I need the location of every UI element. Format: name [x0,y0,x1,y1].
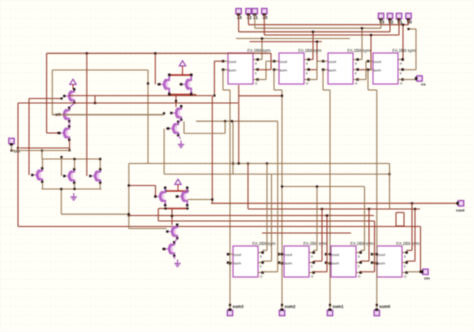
wire [271,174,273,261]
wire [183,122,185,134]
junction [41,149,43,151]
wire [229,90,231,308]
wire [262,232,351,234]
wire [358,69,372,71]
wire [316,187,318,251]
wire [396,212,404,214]
svg-text:ci: ci [260,274,263,278]
wire [326,253,330,255]
junction [229,262,231,264]
pmos transistor M2 [58,107,70,123]
svg-text:a: a [260,254,262,258]
wire [361,260,370,262]
wire [309,69,318,71]
wire [258,69,272,71]
wire [12,150,71,152]
svg-text:cout: cout [332,252,340,257]
wire [365,61,367,79]
svg-text:b: b [255,71,257,75]
wire [266,60,274,62]
wire [211,96,213,204]
wire [69,95,212,97]
pmos transistor M8 [180,74,192,96]
junction [60,156,62,158]
output pin cout [456,201,465,213]
wire [28,99,30,176]
wire [129,185,156,187]
nmos transistor M4 [31,167,43,183]
wire [129,215,374,217]
wire [366,60,368,62]
svg-text:b: b [306,71,308,75]
svg-text:FA 2Bit sym: FA 2Bit sym [303,241,327,246]
junction [168,93,170,95]
wire [372,253,377,255]
wire [403,213,405,227]
svg-text:ci: ci [255,81,258,85]
wire net b1 [248,14,250,25]
junction [166,127,168,129]
svg-text:ci: ci [306,81,309,85]
junction [402,24,404,26]
wire [370,35,372,70]
junction [60,188,62,190]
wire [376,90,378,308]
wire [166,190,188,192]
wire [321,209,323,261]
wire [249,24,409,26]
wire [239,95,282,97]
junction [376,304,378,306]
svg-text:a: a [358,254,360,258]
output pin sum1 [327,304,344,316]
wire [250,41,322,43]
wire [47,132,59,134]
full adder U5 [227,241,276,278]
wire [309,79,318,81]
wire [42,158,102,160]
junction [190,93,192,95]
full adder U8 [371,241,420,278]
svg-text:sum: sum [285,260,293,265]
wire [265,61,267,79]
wire net cout [211,202,458,204]
junction [261,37,263,39]
wire [396,225,404,227]
wire [270,53,272,69]
svg-text:cout: cout [378,252,386,257]
wire [11,146,13,151]
wire [164,173,389,175]
junction [68,149,70,151]
wire [51,70,53,115]
wire [326,216,328,272]
input pin a2 [246,9,253,20]
svg-text:b2: b2 [389,20,395,25]
junction [73,188,75,190]
svg-text:ci: ci [404,274,407,278]
junction [247,162,249,164]
wire [407,260,416,262]
wire [238,85,240,164]
junction [175,100,177,102]
junction [326,214,328,216]
wire [129,228,167,230]
input pin a1 [252,9,259,20]
junction [361,27,363,29]
junction [154,52,156,54]
junction [281,304,283,306]
junction [419,271,421,273]
wire [60,189,62,214]
junction [128,184,130,186]
svg-text:FA 2Bit sym: FA 2Bit sym [252,241,276,246]
wire [158,208,165,210]
wire [398,19,400,35]
svg-text:sum: sum [374,67,382,72]
wire [182,70,184,75]
wire [174,256,176,259]
svg-text:cout: cout [329,59,337,64]
junction [162,248,164,250]
full adder U4 [367,48,416,86]
wire [184,132,225,134]
svg-text:FA 2Bit sym: FA 2Bit sym [392,48,416,53]
wire [99,159,101,169]
wire [170,74,192,76]
svg-text:sum2: sum2 [285,304,297,309]
junction [147,82,149,84]
input pin a0 [262,9,269,20]
junction [57,132,59,134]
wire [74,159,76,169]
wire [20,147,70,149]
junction [388,173,390,175]
input pin b0 [406,13,413,24]
wire [273,70,275,90]
wire [258,59,263,61]
wire [18,102,238,104]
wire [195,95,197,96]
wire [170,94,192,96]
junction [186,207,188,209]
svg-text:a3: a3 [237,15,242,20]
wire [196,120,278,122]
svg-text:a: a [306,61,308,65]
wire [61,213,129,215]
svg-text:a: a [255,61,257,65]
wire [214,60,223,62]
wire [403,79,417,81]
vdd symbol of gate G1 [70,79,76,88]
wire net b0 [263,14,265,35]
wire [171,209,173,226]
nmos transistor M13 [166,224,178,240]
wire [323,89,330,91]
svg-text:cout: cout [285,252,293,257]
wire [222,70,224,90]
input pin b3 [378,13,385,24]
full adder U1 [222,48,271,86]
junction [86,52,88,54]
junction [229,304,231,306]
svg-text:FA 2Bit sym: FA 2Bit sym [247,48,271,53]
junction [211,198,213,200]
svg-text:a: a [404,254,406,258]
svg-text:sum: sum [229,67,237,72]
svg-text:sum: sum [329,67,337,72]
junction [164,190,166,192]
pmos transistor M12 [176,187,188,207]
input pin a3 [236,9,243,20]
nmos transistor M6 [89,168,101,184]
wire [175,239,178,243]
junction [168,74,170,76]
wire [358,79,367,81]
full adder U6 [278,241,327,278]
wire [188,199,213,201]
wire [69,122,71,127]
wire [228,263,230,265]
pmos transistor M7 [158,74,170,96]
wire [361,28,363,59]
wire [248,208,420,210]
full adder U3 [322,48,371,86]
junction [368,208,370,210]
wire [213,61,215,95]
junction [281,185,283,187]
output pin sum0 [374,304,391,316]
svg-text:cout: cout [374,59,382,64]
junction [281,262,283,264]
junction [281,95,283,97]
svg-text:b: b [311,264,313,268]
wire [389,19,391,32]
wire [258,79,267,81]
svg-text:cout: cout [229,59,237,64]
wire [317,60,323,62]
junction [316,185,318,187]
junction [411,202,413,204]
junction [231,120,233,122]
wire [147,70,149,163]
wire [361,271,375,273]
wire [407,249,413,251]
junction [10,149,12,151]
svg-text:ci: ci [400,81,403,85]
junction [329,304,331,306]
wire [255,27,381,29]
wire net b3 [238,14,240,32]
wire [72,87,74,90]
nmos transistor M9 [170,105,182,121]
wire [329,90,331,308]
svg-text:ci: ci [358,274,361,278]
junction [61,97,63,99]
output pin co [415,76,426,87]
svg-text:a: a [311,254,313,258]
wire net b2 [254,14,256,28]
wire [322,70,324,90]
wire [261,39,263,60]
junction [224,120,226,122]
wire [192,94,197,96]
junction [128,214,130,216]
output pin co2 [421,269,430,280]
wire [166,208,188,210]
wire [395,213,397,227]
junction [164,207,166,209]
input pin b1 [396,13,403,24]
wire [380,19,382,28]
vdd symbol of gate G3 [175,179,181,188]
wire [74,183,76,189]
wire [372,263,377,265]
wire [420,227,422,272]
wire [232,121,234,174]
wire [128,164,130,229]
full adder U2 [273,48,322,86]
junction [163,112,165,114]
ground symbol of gate G3 [174,260,180,267]
junction [376,262,378,264]
wire [179,120,182,122]
junction [232,162,234,164]
svg-text:b3: b3 [380,20,386,25]
wire [409,28,417,30]
junction [376,253,378,255]
junction [73,158,75,160]
output pin sum2 [279,304,296,316]
wire [368,209,370,261]
wire [94,96,96,103]
wire [224,121,226,133]
junction [99,158,101,160]
svg-text:cout: cout [456,208,465,213]
wire [223,89,230,91]
junction [171,215,173,217]
junction [266,162,268,164]
wire [99,183,101,189]
wire [29,98,62,100]
svg-text:FA 2Bit sym: FA 2Bit sym [396,241,420,246]
input pin Cin [9,138,21,153]
svg-text:b: b [355,71,357,75]
svg-text:b: b [358,264,360,268]
wire [42,159,44,168]
svg-text:a: a [355,61,357,65]
wire [411,203,413,250]
svg-text:a: a [400,61,402,65]
wire [368,89,377,91]
wire [236,38,350,40]
wire [42,188,102,190]
wire [402,59,405,61]
wire [47,52,271,54]
wire [42,182,44,189]
pmos transistor M3 [58,125,70,141]
svg-text:a0: a0 [263,15,268,20]
svg-text:a2: a2 [247,15,252,20]
svg-text:sum: sum [234,260,242,265]
wire [18,226,421,228]
wire [374,221,376,272]
wire [389,164,391,210]
wire [41,151,43,160]
svg-text:b0: b0 [407,20,413,25]
wire [358,59,363,61]
wire [177,188,179,191]
svg-text:co: co [421,82,426,87]
junction [190,74,192,76]
svg-text:sum: sum [332,260,340,265]
wire [314,249,318,251]
wire [179,136,181,140]
svg-text:sum0: sum0 [379,304,391,309]
wire [52,114,164,116]
wire [403,69,417,71]
input pin b2 [387,13,394,24]
junction [176,195,178,197]
wire [408,19,410,25]
svg-text:sum3: sum3 [233,304,245,309]
svg-text:cout: cout [280,59,288,64]
junction [321,208,323,210]
svg-text:b: b [260,264,262,268]
wire [163,129,165,175]
wire [312,32,314,60]
svg-text:b: b [400,71,402,75]
vdd symbol of gate G2 [179,61,185,70]
ground symbol of gate G2 [178,141,184,148]
wire [263,260,272,262]
junction [312,31,314,33]
junction [329,253,331,255]
junction [316,41,318,43]
wire [266,164,268,251]
wire [158,220,374,222]
junction [158,83,160,85]
svg-text:ci: ci [311,274,314,278]
wire [402,25,404,60]
wire [415,29,417,70]
wire [157,209,159,222]
wire [70,103,75,108]
junction [186,190,188,192]
junction [17,147,19,149]
pmos transistor M1 [63,88,75,104]
wire [279,263,282,265]
wire [309,59,314,61]
wire [86,53,88,176]
svg-text:a1: a1 [253,15,258,20]
nmos transistor M14 [163,241,175,257]
junction [128,213,130,215]
svg-text:FA 2Bit sym: FA 2Bit sym [347,48,371,53]
svg-text:FA 2Bit sym: FA 2Bit sym [298,48,322,53]
svg-text:cin: cin [424,276,430,281]
full adder U7 [325,241,374,278]
wire [175,95,177,108]
wire [274,89,282,91]
pmos transistor M11 [154,187,166,207]
wire [69,140,71,150]
wire [316,61,318,79]
svg-text:FA 2Bit sym: FA 2Bit sym [350,241,374,246]
svg-text:b: b [404,264,406,268]
wire [61,157,63,176]
junction [154,195,156,197]
